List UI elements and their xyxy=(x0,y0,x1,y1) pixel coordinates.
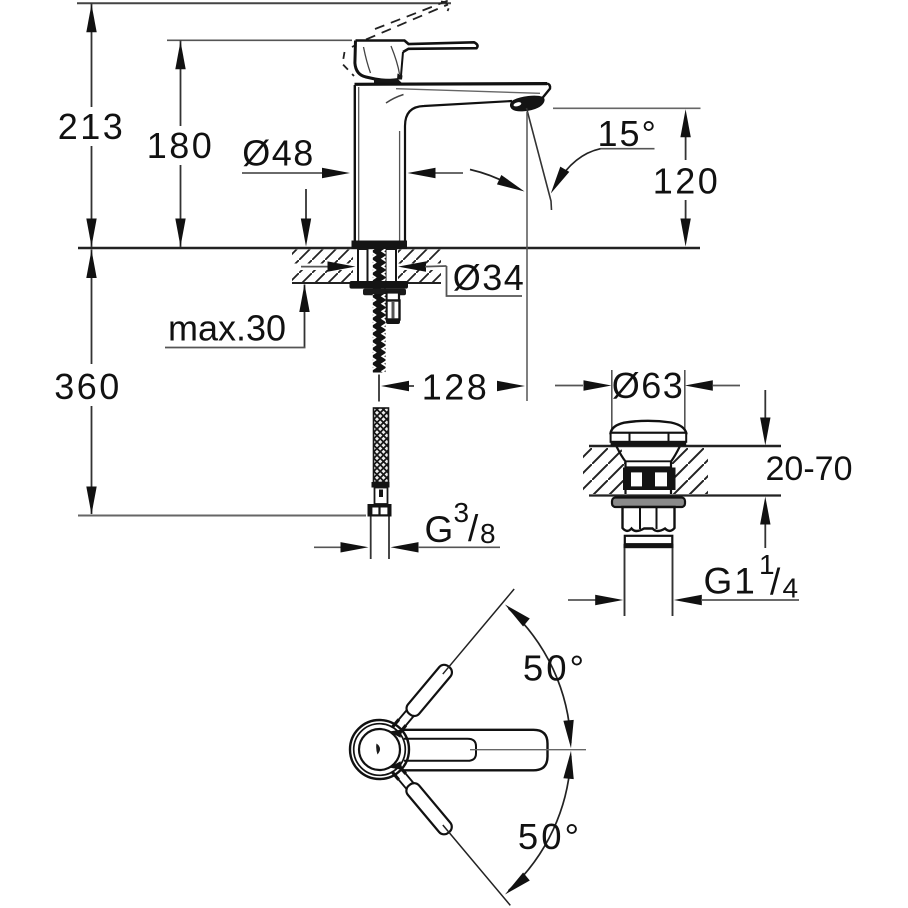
dimension 120 vertical line xyxy=(680,109,690,246)
drain counter hatch right xyxy=(671,448,708,494)
svg-text:180: 180 xyxy=(147,125,215,166)
water flow direction curved arrow xyxy=(470,170,527,197)
svg-text:4: 4 xyxy=(783,573,799,604)
dimension 128 xyxy=(379,375,525,402)
drain cap rim xyxy=(611,433,687,446)
svg-text:8: 8 xyxy=(480,518,496,549)
label G3/8 xyxy=(425,497,496,550)
handle pivot bore xyxy=(359,729,400,770)
counter bottom line xyxy=(292,282,441,284)
drain tail pipe xyxy=(625,548,673,616)
label max.30 underline xyxy=(165,347,306,349)
svg-text:20-70: 20-70 xyxy=(766,450,853,488)
lever centerline xyxy=(470,749,586,751)
dashed raised lever position xyxy=(343,0,450,76)
O63 extension lines xyxy=(611,370,613,432)
dimension 213 vertical line xyxy=(86,3,96,247)
O34 label step and underline xyxy=(447,266,523,296)
O48 leader line with arrow to body xyxy=(242,168,350,178)
spout centerline down to 128 dim xyxy=(526,112,528,401)
handle joint shadow wedges xyxy=(374,79,404,85)
mounting shank left tube through counter xyxy=(358,249,368,282)
hose end pipe xyxy=(371,517,389,560)
drain locking ring xyxy=(625,536,673,544)
upper 50deg arc with arrows xyxy=(502,601,577,749)
drain overflow slot frame xyxy=(623,468,676,491)
G1 1/4 dimension arrows xyxy=(568,595,799,605)
G3/8 dimension arrows xyxy=(314,542,500,552)
faucet base plate xyxy=(352,241,408,250)
svg-text:120: 120 xyxy=(653,161,721,202)
faucet handle lever (solid, horizontal position) xyxy=(355,41,405,81)
svg-text:Ø63: Ø63 xyxy=(612,365,685,406)
svg-text:360: 360 xyxy=(54,366,122,407)
flange nut under counter xyxy=(350,281,409,289)
pull rod guide fitting xyxy=(386,293,400,325)
svg-text:Ø48: Ø48 xyxy=(242,133,315,174)
spout aerator tip xyxy=(510,96,544,111)
dimension 20-70 lower xyxy=(760,497,770,549)
spout height reference line (120) xyxy=(553,107,701,109)
pivot center mark xyxy=(376,744,380,755)
handle pivot outer ring xyxy=(350,720,409,779)
lever junction wedges xyxy=(389,730,403,738)
flexible hose braided section xyxy=(374,408,389,483)
drain counter top line xyxy=(589,445,781,448)
counter hatched section left of faucet xyxy=(292,250,353,264)
dimension 20-70 upper xyxy=(760,390,770,446)
O63 dimension line and arrows xyxy=(555,380,740,390)
svg-text:G: G xyxy=(425,509,454,550)
hose end nut G3/8 xyxy=(368,504,392,517)
lever raised 50deg up position xyxy=(390,584,519,734)
svg-text:Ø34: Ø34 xyxy=(453,257,526,298)
lock nut profile xyxy=(363,289,406,296)
dimension max.30 lower pointer xyxy=(292,283,318,347)
15 deg leader underline and curved arrow xyxy=(546,149,654,196)
threaded stud through counter xyxy=(373,249,386,294)
lever horizontal inner neck xyxy=(404,739,476,761)
dimension 180 vertical line xyxy=(175,40,185,247)
lever swung 50deg down position xyxy=(390,764,516,908)
top reference line (overall height 213) xyxy=(77,2,451,4)
faucet body outline xyxy=(355,84,551,242)
label G1 1/4 xyxy=(704,549,799,604)
O48 right arrow xyxy=(408,168,464,178)
svg-text:213: 213 xyxy=(58,106,126,147)
bottom reference line (hose end level) xyxy=(78,515,366,517)
reference line handle top (180) xyxy=(167,39,352,41)
svg-text:3: 3 xyxy=(454,497,470,528)
counter top line xyxy=(78,247,700,250)
drain cap dome xyxy=(611,421,687,433)
dimension max.30 upper pointer xyxy=(301,189,311,247)
drain washer below counter xyxy=(612,498,685,508)
hose collar xyxy=(372,482,390,488)
threaded rod below counter xyxy=(373,294,386,373)
drain nut xyxy=(623,507,675,531)
svg-text:max.30: max.30 xyxy=(168,308,286,349)
lever horizontal outer outline xyxy=(400,730,548,771)
svg-text:50°: 50° xyxy=(523,648,587,689)
mounting shank right tube through counter xyxy=(386,249,397,282)
svg-text:G1: G1 xyxy=(704,561,757,602)
water stream line (15 deg) xyxy=(527,108,552,210)
svg-text:/: / xyxy=(770,562,781,603)
lower 50deg arc with arrows xyxy=(502,750,577,898)
svg-text:/: / xyxy=(468,508,479,549)
hose neck xyxy=(375,488,388,505)
drain counter bottom line xyxy=(589,494,781,496)
dimension 360 vertical line xyxy=(86,250,96,515)
drain neck through counter xyxy=(617,447,680,495)
dimension O34 arrows at shank xyxy=(301,261,447,271)
svg-text:50°: 50° xyxy=(518,816,582,857)
counter hatched section right of faucet xyxy=(398,250,441,264)
svg-text:128: 128 xyxy=(422,367,490,408)
drain counter hatch left xyxy=(583,448,626,494)
